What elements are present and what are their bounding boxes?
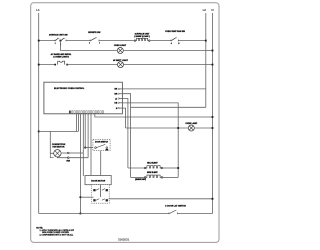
svg-text:40 WATT LIGHT: 40 WATT LIGHT xyxy=(113,59,129,62)
svg-text:DOOR MOTOR: DOOR MOTOR xyxy=(91,181,106,183)
svg-text:3162031: 3162031 xyxy=(118,238,130,242)
svg-text:SURFACE UNIT SW: SURFACE UNIT SW xyxy=(49,33,68,36)
svg-text:BKE ELMNT: BKE ELMNT xyxy=(147,172,158,174)
svg-text:( 2600W @ 240V ): ( 2600W @ 240V ) xyxy=(134,35,150,38)
svg-text:OVEN VENT FAN SW: OVEN VENT FAN SW xyxy=(165,30,185,33)
svg-text:2: 2 xyxy=(89,43,90,45)
svg-text:ELECTRONIC OVEN CONTROL: ELECTRONIC OVEN CONTROL xyxy=(54,88,85,90)
svg-text:L2: L2 xyxy=(203,8,207,12)
svg-text:OVEN LAMP: OVEN LAMP xyxy=(185,122,198,125)
svg-text:OVEN LIGHT: OVEN LIGHT xyxy=(114,45,127,47)
svg-text:L1: L1 xyxy=(115,98,117,100)
svg-text:DOOR SWITCH: DOOR SWITCH xyxy=(95,141,109,143)
svg-text:N: N xyxy=(211,8,213,12)
svg-text:& OVEN LIGHTS: & OVEN LIGHTS xyxy=(53,57,69,59)
svg-text:3: 3 xyxy=(55,43,56,45)
svg-text:INFINITE SW: INFINITE SW xyxy=(88,32,100,34)
svg-text:BRL ELMNT: BRL ELMNT xyxy=(147,162,158,164)
svg-text:∗ DOOR LAT SWITCH: ∗ DOOR LAT SWITCH xyxy=(165,205,187,208)
svg-text:FAN MOTOR: FAN MOTOR xyxy=(53,146,66,149)
svg-text:L1: L1 xyxy=(36,8,40,12)
svg-text:(2585W 240V): (2585W 240V) xyxy=(135,178,146,181)
svg-text:2. COMPONENTS WTH ∗ NOT ON ALL: 2. COMPONENTS WTH ∗ NOT ON ALL xyxy=(40,233,75,236)
svg-text:1: 1 xyxy=(99,43,100,45)
